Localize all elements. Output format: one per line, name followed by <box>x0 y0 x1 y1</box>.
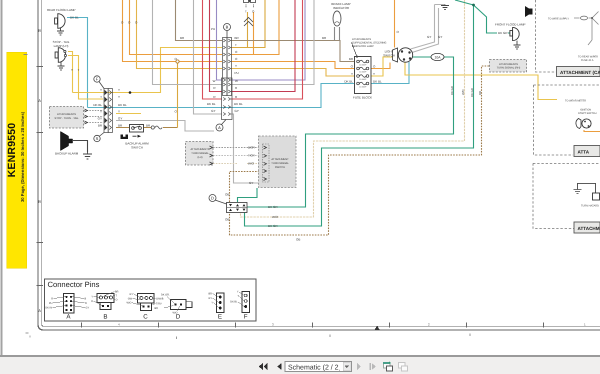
svg-text:ATTACHMENTS: ATTACHMENTS <box>499 63 518 66</box>
svg-text:BR: BR <box>155 307 159 310</box>
svg-text:S: S <box>96 136 99 141</box>
svg-text:T: T <box>78 68 80 72</box>
svg-text:GY: GY <box>129 293 133 296</box>
svg-text:GY: GY <box>235 109 239 113</box>
svg-text:ATTACHMENT: ATTACHMENT <box>271 158 289 161</box>
svg-text:ATTACHMENTS: ATTACHMENTS <box>352 38 371 41</box>
svg-text:C: C <box>143 314 148 321</box>
svg-text:FUSE 40 A: FUSE 40 A <box>581 59 594 62</box>
svg-text:TO WIRE SUPPLY: TO WIRE SUPPLY <box>548 18 569 21</box>
svg-text:GY: GY <box>208 297 212 300</box>
svg-text:10A: 10A <box>434 56 441 60</box>
svg-text:E: E <box>218 314 222 321</box>
svg-text:W/O: W/O <box>127 302 132 305</box>
svg-text:STOP - TURN - TAIL: STOP - TURN - TAIL <box>55 117 80 120</box>
svg-text:Y: Y <box>351 72 353 76</box>
svg-text:PU: PU <box>235 71 239 75</box>
svg-text:DK GR: DK GR <box>268 224 278 228</box>
svg-text:Connector Pins: Connector Pins <box>48 280 100 289</box>
svg-text:INDICATOR LAMP: INDICATOR LAMP <box>352 45 374 48</box>
svg-text:GY: GY <box>427 35 431 39</box>
svg-text:B: B <box>103 314 107 321</box>
svg-text:T: T <box>245 10 247 14</box>
svg-text:ATTACHM: ATTACHM <box>578 226 600 231</box>
svg-text:T: T <box>235 43 237 47</box>
svg-text:DK BL: DK BL <box>344 79 353 83</box>
svg-text:B/GY: B/GY <box>248 146 255 150</box>
svg-text:T: T <box>100 95 102 99</box>
svg-text:30 Page, (Dimensions: 30 Inche: 30 Page, (Dimensions: 30 Inches x 28 Inc… <box>20 111 25 202</box>
svg-text:D: D <box>176 314 181 321</box>
svg-text:BR: BR <box>115 291 119 294</box>
svg-text:(LH): (LH) <box>197 156 202 159</box>
svg-text:R: R <box>51 298 53 301</box>
svg-text:O: O <box>91 300 93 303</box>
svg-text:O: O <box>116 299 118 302</box>
svg-text:DK IN: DK IN <box>45 307 52 310</box>
svg-text:OB: OB <box>225 193 229 197</box>
svg-text:SWITCH: SWITCH <box>275 166 285 169</box>
svg-text:GW: GW <box>128 297 133 300</box>
svg-text:PU: PU <box>49 302 53 305</box>
svg-text:GY: GY <box>438 35 442 39</box>
svg-text:TO WEAR METER: TO WEAR METER <box>565 100 586 103</box>
svg-text:SUPPLEMENTAL STEERING: SUPPLEMENTAL STEERING <box>352 42 386 45</box>
svg-text:Y: Y <box>118 109 120 113</box>
svg-text:B: B <box>38 28 41 33</box>
svg-text:A: A <box>38 98 41 103</box>
svg-text:B: B <box>38 199 41 204</box>
svg-text:Y: Y <box>235 64 237 68</box>
svg-text:BR: BR <box>209 293 213 296</box>
svg-text:W/O: W/O <box>272 215 279 219</box>
svg-text:ATTA: ATTA <box>578 150 590 155</box>
svg-text:TURN SIGNAL (RH): TURN SIGNAL (RH) <box>497 67 521 70</box>
svg-text:GY: GY <box>211 109 215 113</box>
svg-text:DK GR: DK GR <box>470 88 474 97</box>
svg-text:W: W <box>213 79 216 83</box>
svg-text:TURN HAZARD: TURN HAZARD <box>581 205 599 208</box>
svg-text:DK BL: DK BL <box>234 102 243 106</box>
svg-text:DK GR: DK GR <box>498 31 508 35</box>
svg-text:TURN SIGNAL: TURN SIGNAL <box>271 162 289 165</box>
svg-text:SWITCH: SWITCH <box>131 146 143 150</box>
svg-text:Y: Y <box>71 68 73 72</box>
svg-text:Y: Y <box>100 109 102 113</box>
svg-text:START SWITCH: START SWITCH <box>578 112 597 115</box>
svg-text:G/W/B: G/W/B <box>156 298 164 301</box>
svg-text:W/O: W/O <box>248 162 255 166</box>
svg-text:DK GR: DK GR <box>450 86 454 95</box>
svg-text:A: A <box>38 308 41 313</box>
svg-text:DK GR: DK GR <box>268 205 278 209</box>
svg-text:SWITCH: SWITCH <box>383 54 395 58</box>
svg-text:LAMP (LH): LAMP (LH) <box>54 44 69 48</box>
svg-text:ATTACHMENT (CA: ATTACHMENT (CA <box>560 70 600 75</box>
svg-text:Y: Y <box>100 88 102 92</box>
svg-text:INDICATOR: INDICATOR <box>333 6 350 10</box>
svg-text:15 AMP: 15 AMP <box>359 85 367 88</box>
svg-text:GY: GY <box>86 307 90 310</box>
svg-text:FRONT FLOOD LAMP: FRONT FLOOD LAMP <box>495 23 525 27</box>
svg-text:F: F <box>244 314 248 321</box>
svg-text:PU: PU <box>211 27 215 31</box>
svg-text:ATTACHMENTS: ATTACHMENTS <box>190 148 209 151</box>
svg-text:FUSE BLOCK: FUSE BLOCK <box>353 96 372 100</box>
svg-text:T/GY: T/GY <box>248 154 255 158</box>
svg-text:A: A <box>218 125 221 130</box>
svg-text:GY: GY <box>249 181 253 185</box>
svg-text:KENR9550: KENR9550 <box>6 123 18 178</box>
svg-text:GY: GY <box>118 116 122 120</box>
svg-text:ATTACHMENTS: ATTACHMENTS <box>57 113 76 116</box>
svg-text:DK BL: DK BL <box>70 16 79 20</box>
svg-text:DK BL: DK BL <box>373 79 382 83</box>
svg-text:W: W <box>235 79 238 83</box>
svg-text:DK BL: DK BL <box>207 102 216 106</box>
svg-text:W/O: W/O <box>461 89 465 95</box>
svg-text:OB: OB <box>296 238 300 242</box>
svg-text:REAR FLOOD LAMP: REAR FLOOD LAMP <box>47 8 76 12</box>
svg-text:B: B <box>226 24 229 29</box>
svg-text:R: R <box>85 302 87 305</box>
svg-text:Schematic (2 / 2ˌ: Schematic (2 / 2ˌ <box>288 363 341 371</box>
svg-text:OB: OB <box>225 218 229 222</box>
svg-text:Y: Y <box>118 95 120 99</box>
svg-text:DK BL: DK BL <box>118 103 127 107</box>
svg-text:DK BL: DK BL <box>230 301 238 304</box>
svg-text:T/RV: T/RV <box>156 302 162 305</box>
svg-text:15 AMP: 15 AMP <box>359 78 367 81</box>
svg-text:TURN SIGNAL: TURN SIGNAL <box>191 152 209 155</box>
svg-text:15 AMP: 15 AMP <box>359 63 367 66</box>
svg-text:BACKUP ALARM: BACKUP ALARM <box>55 152 79 156</box>
svg-text:DK BL: DK BL <box>93 103 102 107</box>
svg-text:GY: GY <box>98 116 102 120</box>
svg-text:15 AMP: 15 AMP <box>359 70 367 73</box>
svg-text:D: D <box>211 195 214 200</box>
svg-text:Y: Y <box>118 88 120 92</box>
svg-text:Y: Y <box>373 72 375 76</box>
svg-text:DK GR.: DK GR. <box>161 294 170 297</box>
svg-text:OB: OB <box>478 91 482 95</box>
